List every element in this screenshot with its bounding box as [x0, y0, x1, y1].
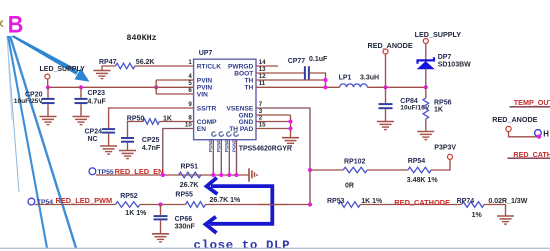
annotation thin callout line 2: [7, 36, 12, 120]
junction pad 3: [227, 173, 231, 177]
op-amp/regulator U1 box UP7: [194, 59, 256, 140]
svg-text:12: 12: [259, 73, 266, 80]
svg-text:RP54: RP54: [408, 158, 426, 165]
resistor RP50: [143, 119, 159, 125]
wire GND pin 3: [256, 114, 291, 116]
svg-text:close to DLP: close to DLP: [194, 238, 291, 251]
annotation thin callout line 1: [7, 36, 19, 192]
wire BOOT pin 13 to CP77: [256, 72, 304, 74]
svg-text:4: 4: [188, 73, 192, 80]
junction VSENSE to RP102: [308, 168, 312, 172]
svg-text:RP52: RP52: [120, 193, 138, 200]
wire TH pin 12: [256, 79, 326, 81]
wire LED_SUPPLY to DP7: [425, 44, 427, 61]
resistor RP74: [461, 202, 484, 208]
svg-text:SS/TR: SS/TR: [197, 105, 217, 112]
wire RP47 to pin 1: [135, 65, 194, 67]
svg-text:TEMP_OUT: TEMP_OUT: [514, 98, 550, 107]
svg-text:RT/CLK: RT/CLK: [197, 63, 221, 70]
junction GND pin2: [288, 119, 292, 123]
svg-text:TPS54620RGYR: TPS54620RGYR: [239, 146, 292, 153]
ground at CP66: [152, 234, 169, 242]
svg-text:PGND: PGND: [216, 139, 221, 152]
capacitor CP84: [379, 104, 393, 108]
svg-text:7: 7: [259, 101, 263, 108]
svg-text:1: 1: [188, 59, 192, 66]
resistor RP55: [186, 202, 206, 208]
svg-text:NC: NC: [88, 136, 98, 143]
capacitor C24 (NC): [102, 129, 115, 133]
wire RP55 to VSENSE node: [206, 204, 311, 206]
svg-text:14: 14: [259, 59, 266, 66]
svg-text:PGND: PGND: [231, 139, 236, 152]
wire RED_ANODE to connector: [509, 132, 540, 137]
svg-text:CP77: CP77: [288, 58, 306, 65]
svg-text:UP7: UP7: [199, 50, 213, 57]
pad pin bubbles at IC bottom: [212, 132, 238, 136]
svg-text:RP55: RP55: [175, 191, 193, 198]
resistor RP102: [343, 167, 367, 173]
wire CP25 lower stem: [127, 143, 129, 151]
rotated ground at RED_LED_EN: [249, 168, 257, 181]
svg-text:LED_SUPPLY: LED_SUPPLY: [40, 66, 86, 73]
wire SS/TR to CP24: [109, 108, 194, 128]
wire pins 4-6 vertical: [155, 80, 157, 94]
svg-text:B: B: [8, 10, 24, 37]
wire LP1 output node: [367, 86, 426, 88]
wire RED_LED_PWM net: [35, 204, 116, 206]
pin numbers left: [185, 59, 192, 129]
wire over bracket: [258, 204, 288, 206]
wire GND pin 2: [256, 121, 291, 123]
svg-text:GND: GND: [239, 119, 254, 126]
svg-text:1K 1%: 1K 1%: [125, 210, 147, 217]
pad wires below IC: [213, 140, 236, 175]
capacitor CP20: [42, 99, 55, 103]
svg-text:10uF/25V: 10uF/25V: [14, 98, 44, 105]
wire to pin 4: [156, 79, 194, 81]
svg-text:15: 15: [259, 121, 266, 128]
wire EN pin 10 down to RED_LED_EN: [163, 129, 194, 176]
svg-text:CP23: CP23: [88, 90, 106, 97]
svg-text:CP24: CP24: [85, 129, 103, 136]
svg-text:4.7nF: 4.7nF: [142, 145, 161, 152]
wire CP24 lower stem: [108, 134, 110, 146]
svg-text:TH: TH: [245, 77, 254, 84]
wire RP54 to P3P3V: [431, 159, 450, 170]
junction at CP23: [79, 85, 83, 89]
capacitor CP25: [121, 138, 134, 142]
annotation thick callout line A: [8, 36, 47, 248]
svg-text:BOOT: BOOT: [234, 70, 253, 77]
ground at CP24: [100, 146, 117, 154]
svg-text:0R: 0R: [345, 183, 354, 190]
wire CP20 stems: [47, 87, 49, 116]
svg-text:PVIN: PVIN: [197, 77, 213, 84]
resistor RP47: [116, 63, 135, 69]
wire CP66 stems: [160, 205, 162, 234]
junction pad 1: [211, 173, 215, 177]
svg-text:840KHz: 840KHz: [127, 33, 157, 43]
tiny rotated pad labels: [208, 139, 236, 152]
wire RP56 to ground: [425, 119, 427, 131]
wire RP47 left to ground: [102, 66, 116, 70]
junction pad 4: [234, 173, 238, 177]
junction at CP84: [383, 85, 387, 89]
connector pin H: [535, 130, 542, 137]
svg-text:P3P3V: P3P3V: [434, 144, 456, 151]
wire CP77 to switch node: [310, 73, 326, 87]
cropped olive glyph fragment at left edge: [1, 21, 4, 26]
wire RP74 to ground: [484, 205, 505, 216]
svg-text:RED_CATHODE: RED_CATHODE: [394, 198, 450, 207]
test point TP55: [89, 168, 96, 175]
svg-text:11: 11: [259, 80, 266, 87]
svg-text:4.7uF: 4.7uF: [88, 98, 107, 105]
svg-text:RED_ANODE: RED_ANODE: [368, 41, 413, 50]
wire GND vertical: [290, 115, 292, 138]
pin names left: [197, 63, 221, 133]
ground at CP25: [119, 151, 136, 159]
junction at DP7: [424, 85, 428, 89]
svg-text:LED_SUPPLY: LED_SUPPLY: [415, 30, 462, 39]
svg-text:TH PAD: TH PAD: [229, 126, 253, 133]
ground at CP23: [73, 117, 90, 125]
svg-text:0.1uF: 0.1uF: [309, 56, 328, 63]
resistor RP51: [179, 172, 201, 178]
wire CP23 stems: [80, 87, 82, 116]
svg-text:26.7K 1%: 26.7K 1%: [210, 197, 242, 204]
junction pad 2: [219, 173, 223, 177]
wire RP102 to RP54: [367, 169, 408, 171]
svg-text:8: 8: [188, 114, 192, 121]
ground at CP20: [40, 117, 57, 125]
wire to pin 6: [156, 93, 194, 95]
wire TH PAD pin 15: [256, 128, 291, 130]
svg-text:26.7K: 26.7K: [180, 182, 199, 189]
page border bottom line: [0, 247, 550, 249]
capacitor C77: [305, 66, 309, 80]
junction VSENSE to RP53: [308, 202, 312, 206]
wire DP7 to node and RP56: [425, 69, 427, 98]
junction at CP66: [158, 202, 162, 206]
svg-text:56.2K: 56.2K: [136, 59, 155, 66]
junction EN drop: [161, 173, 165, 177]
annotation thick callout line B: [10, 36, 76, 248]
svg-text:COMP: COMP: [197, 119, 217, 126]
power terminal P3P3V: [448, 154, 453, 159]
svg-text:10: 10: [185, 121, 192, 128]
svg-text:DP7: DP7: [438, 54, 452, 61]
capacitor CP66: [154, 216, 168, 219]
svg-text:PWRGD: PWRGD: [228, 63, 254, 70]
svg-text:EN: EN: [197, 126, 206, 133]
wire RED_LED_EN net: [96, 174, 249, 176]
wire RP50 left to CP25: [128, 122, 144, 138]
ground at RP74: [497, 216, 514, 224]
junction GND pin15: [288, 126, 292, 130]
resistor RP56: [423, 98, 429, 119]
resistor RP54: [408, 167, 431, 173]
junction BOOT/TH upper: [323, 78, 327, 82]
junction BOOT/TH lower: [323, 85, 327, 89]
diode DP7 schottky: [418, 57, 435, 69]
wire RP53 to RP74: [360, 204, 461, 206]
wire TH pin 11 to LP1: [256, 86, 340, 88]
wire RP50 to COMP pin 8: [159, 121, 194, 123]
wire RP52 to junction: [140, 204, 186, 206]
test point TP54: [28, 198, 35, 205]
wire LED_SUPPLY stem: [47, 79, 49, 87]
junction at CP20: [46, 85, 50, 89]
junction at PVIN split: [154, 85, 158, 89]
resistor RP53: [339, 202, 361, 208]
svg-text:13: 13: [259, 66, 266, 73]
svg-text:CP25: CP25: [142, 137, 160, 144]
svg-text:LP1: LP1: [339, 75, 352, 82]
svg-text:3.3uH: 3.3uH: [360, 75, 379, 82]
svg-text:RED_LED_PWM: RED_LED_PWM: [56, 196, 113, 205]
svg-text:9: 9: [188, 101, 192, 108]
inductor LP1: [340, 84, 368, 87]
callout bracket arrow: [206, 178, 273, 233]
svg-text:1K: 1K: [434, 106, 443, 113]
svg-text:RP74: RP74: [457, 198, 475, 205]
svg-text:RED_ANODE: RED_ANODE: [492, 115, 537, 124]
svg-text:VSENSE: VSENSE: [227, 105, 254, 112]
ground at CP84: [377, 122, 394, 130]
capacitor CP23: [75, 99, 88, 103]
svg-text:RP47: RP47: [99, 59, 117, 66]
svg-text:330nF: 330nF: [175, 224, 196, 231]
svg-text:SD103BW: SD103BW: [438, 61, 471, 68]
svg-text:CP66: CP66: [175, 216, 193, 223]
ground at IC: [282, 138, 299, 146]
svg-text:PGND: PGND: [224, 139, 229, 152]
svg-text:3.48K 1%: 3.48K 1%: [407, 177, 439, 184]
wire PWRGD pin 14 stub: [256, 65, 278, 67]
svg-text:6: 6: [188, 87, 192, 94]
wire feedback upper row: [310, 169, 343, 171]
ground at RP56: [417, 132, 434, 140]
svg-text:H: H: [543, 130, 549, 139]
svg-text:TH: TH: [245, 85, 254, 92]
pin numbers right: [259, 59, 266, 129]
svg-text:RP102: RP102: [344, 159, 366, 166]
wire input net to PVIN: [48, 86, 194, 88]
pin names right: [227, 63, 254, 133]
svg-text:RP53: RP53: [327, 198, 345, 205]
resistor RP52: [115, 202, 140, 208]
wire VSENSE pin 7 feedback: [256, 108, 310, 205]
svg-text:PGND: PGND: [208, 139, 213, 152]
svg-text:VIN: VIN: [197, 91, 208, 98]
wire CP84 stems: [385, 87, 387, 121]
annotation filled arrow pointing at LED_SUPPLY wire: [12, 35, 90, 82]
svg-text:1%: 1%: [472, 212, 483, 219]
wire RED_ANODE stem: [385, 54, 387, 87]
ground at RP47: [94, 71, 111, 79]
svg-text:RP51: RP51: [181, 163, 199, 170]
